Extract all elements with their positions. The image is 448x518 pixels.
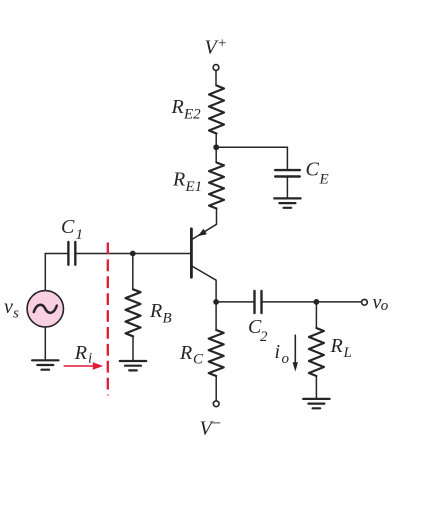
- arrow io: [293, 335, 298, 371]
- arrow Ri: [64, 362, 103, 370]
- wire vs to ground: [44, 327, 46, 360]
- svg-text:R: R: [330, 335, 343, 357]
- wire base node to RB: [132, 254, 134, 290]
- capacitor C2: [255, 291, 262, 313]
- svg-text:R: R: [149, 300, 162, 322]
- transistor Q1 emitter arrow: [198, 229, 207, 236]
- label RC: [179, 342, 204, 368]
- wire C2 to output node: [263, 301, 317, 303]
- wire RB to ground: [132, 336, 134, 361]
- transistor Q1 collector lead: [192, 266, 216, 302]
- wire emitter node to CE: [216, 147, 287, 169]
- wire RE2 to RE1: [215, 134, 217, 163]
- wire output node to RL: [315, 302, 317, 328]
- ground CE: [274, 198, 300, 207]
- label vs: [4, 296, 19, 322]
- label io: [275, 341, 290, 367]
- svg-text:o: o: [381, 298, 389, 314]
- svg-text:R: R: [172, 169, 185, 191]
- svg-text:C: C: [193, 352, 204, 368]
- svg-text:R: R: [171, 96, 184, 118]
- svg-text:1: 1: [76, 227, 84, 243]
- label RB: [149, 300, 172, 327]
- source vs: [27, 291, 63, 327]
- svg-text:R: R: [179, 342, 192, 364]
- svg-text:C: C: [306, 159, 320, 181]
- svg-text:i: i: [275, 341, 281, 363]
- resistor RC: [209, 330, 224, 376]
- power terminal V-: [213, 401, 219, 407]
- label C2: [248, 316, 268, 345]
- svg-text:E2: E2: [183, 107, 201, 123]
- wire output node to vo terminal: [316, 301, 361, 303]
- svg-text:v: v: [4, 296, 13, 318]
- node emitter junction: [213, 144, 219, 150]
- svg-text:i: i: [88, 350, 92, 366]
- svg-text:R: R: [74, 342, 87, 364]
- label Ri: [74, 342, 92, 366]
- svg-text:2: 2: [260, 329, 268, 345]
- wire V+ lead: [215, 71, 217, 86]
- svg-text:−: −: [211, 414, 222, 433]
- svg-text:L: L: [343, 345, 352, 361]
- label RE2: [171, 96, 202, 123]
- wire source vs to C1: [45, 254, 67, 291]
- wire CE to ground: [286, 178, 288, 199]
- svg-text:E: E: [319, 172, 329, 188]
- wire RE1 to transistor emitter: [192, 209, 217, 240]
- label vo: [373, 291, 389, 314]
- label V-: [200, 414, 222, 440]
- wire C1 to base: [77, 253, 191, 255]
- label CE: [306, 159, 329, 188]
- wire collector node to RC: [215, 302, 217, 330]
- ground RL: [303, 399, 329, 408]
- wire RL to ground: [315, 376, 317, 399]
- transistor Q1 base bar: [190, 229, 193, 277]
- svg-text:+: +: [217, 36, 227, 52]
- capacitor C1: [68, 242, 75, 265]
- ground vs: [32, 360, 58, 369]
- label C1: [61, 216, 83, 243]
- resistor RE1: [209, 163, 224, 209]
- node base junction: [130, 251, 136, 257]
- svg-text:C: C: [61, 216, 75, 238]
- resistor RE2: [209, 86, 224, 134]
- node collector junction: [213, 299, 219, 305]
- node output junction: [314, 299, 320, 305]
- ground RB: [120, 361, 146, 370]
- label RL: [330, 335, 352, 361]
- wire collector node to C2: [216, 301, 253, 303]
- svg-text:E1: E1: [185, 179, 203, 195]
- output terminal vo: [362, 299, 368, 305]
- label RE1: [172, 169, 202, 196]
- svg-text:o: o: [282, 351, 290, 367]
- svg-text:B: B: [163, 311, 172, 327]
- capacitor CE: [275, 170, 300, 176]
- input resistance boundary Ri (dashed line): [107, 243, 109, 396]
- resistor RL: [309, 328, 324, 376]
- sine wave: [34, 305, 57, 313]
- resistor RB: [126, 289, 141, 336]
- svg-text:s: s: [13, 306, 19, 322]
- power terminal V+: [213, 65, 219, 71]
- wire RC to V- terminal: [215, 376, 217, 401]
